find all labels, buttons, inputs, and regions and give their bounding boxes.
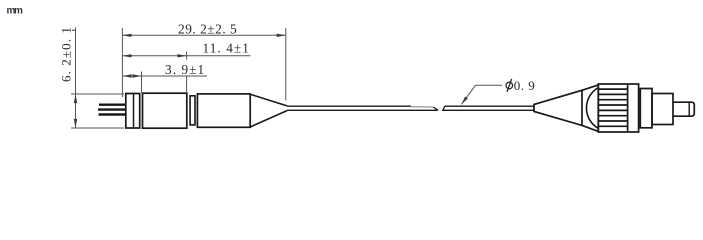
knurl band right edge <box>627 84 629 132</box>
body section C <box>143 93 187 128</box>
arrow 11.4 right <box>178 54 187 57</box>
arrow 6.2 bottom <box>74 119 77 128</box>
knurled nut <box>598 84 638 132</box>
arrow 29.2 right <box>277 34 286 37</box>
arrow 6.2 top <box>74 94 77 103</box>
dome arc <box>586 88 598 129</box>
extension line 29.2 right <box>285 28 287 100</box>
fiber segment 2 <box>443 106 534 110</box>
ferrule end face <box>688 102 690 116</box>
pin middle <box>98 108 126 110</box>
taper cone <box>250 94 287 127</box>
svg-text:mm: mm <box>7 6 23 17</box>
pin top <box>99 103 126 105</box>
svg-text:3. 9±1: 3. 9±1 <box>165 62 205 77</box>
extension line 6.2 bottom <box>71 127 124 129</box>
dim line 6.2 vertical <box>75 28 77 129</box>
svg-text:6. 2±0. 1: 6. 2±0. 1 <box>59 26 74 82</box>
nut front flange <box>640 89 652 128</box>
arrow 3.9 left <box>122 74 131 77</box>
boot cone <box>534 90 582 125</box>
knurl ribs <box>598 89 627 126</box>
boot flare <box>582 85 598 131</box>
dim line 3.9 <box>122 75 207 77</box>
fiber segment 1 top <box>287 105 411 107</box>
arrow 3.9 right <box>132 74 141 77</box>
fiber segment 1 top thin part <box>411 106 434 108</box>
leader line phi0.9 <box>462 85 503 104</box>
extension line 3.9 right <box>141 72 143 93</box>
arrow leader phi0.9 <box>462 97 468 105</box>
flange block <box>126 94 140 129</box>
flange inner line <box>133 94 135 129</box>
fiber segment 1 bottom <box>287 109 438 111</box>
extension line 11.4 right <box>186 52 188 60</box>
extension line left shared <box>121 28 123 97</box>
connector body <box>652 94 673 125</box>
arrow 11.4 left <box>122 54 131 57</box>
phi symbol <box>506 79 513 92</box>
body section E <box>197 94 250 127</box>
dim line 11.4 <box>122 55 250 57</box>
fiber segment 1 tip <box>434 107 438 110</box>
svg-text:29. 2±2. 5: 29. 2±2. 5 <box>178 22 237 37</box>
ring D <box>190 96 195 125</box>
ferrule <box>673 102 694 116</box>
dim line 29.2 <box>122 34 285 36</box>
pin bottom <box>99 113 127 115</box>
dim 6.2 top tick <box>72 29 76 31</box>
extension line 6.2 top <box>71 93 124 95</box>
arrow 29.2 left <box>122 34 131 37</box>
svg-text:11. 4±1: 11. 4±1 <box>203 41 250 56</box>
svg-text:0. 9: 0. 9 <box>514 78 536 93</box>
